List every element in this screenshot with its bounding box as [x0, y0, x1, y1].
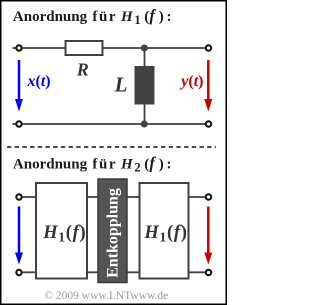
border frame [1, 1, 227, 305]
terminal top-right [206, 45, 211, 50]
terminal lower-right-bottom [206, 270, 211, 275]
terminal lower-right-top [206, 194, 211, 199]
terminal lower-left-top [16, 194, 21, 199]
terminal bottom-right [206, 121, 211, 126]
stub left of top-left terminal [13, 47, 16, 49]
wire top (input to output) [23, 47, 205, 49]
wire inductor branch vertical [144, 48, 146, 124]
block U2 Entkopplung (decoupler) [98, 179, 127, 283]
terminal lower-left-bottom [16, 270, 21, 275]
terminal top-left [16, 45, 21, 50]
wire bottom [23, 123, 205, 125]
dashed separator [7, 146, 216, 148]
wire block U3 to output terminal top [189, 196, 205, 198]
node junction bottom [141, 121, 148, 128]
wire block U2 to U3 bottom [127, 271, 140, 273]
output arrow bottom circuit [207, 207, 210, 254]
stub left of bottom-left terminal [13, 123, 16, 125]
input voltage arrow x(t) [18, 60, 21, 101]
terminal bottom-left [16, 121, 21, 126]
svg-text:L: L [114, 73, 128, 97]
svg-text:AnordnungfürH1(f):: AnordnungfürH1(f): [13, 6, 172, 27]
node junction top [141, 45, 148, 52]
wire block U2 to U3 top [127, 196, 140, 198]
resistor R1 body [66, 41, 103, 55]
wire block U3 to output terminal bottom [189, 271, 205, 273]
block U1 first H1(f) [36, 183, 87, 279]
wire input terminal to block U1 bottom [23, 271, 36, 273]
svg-text:Entkopplung: Entkopplung [105, 188, 122, 278]
output voltage arrow y(t) [207, 60, 210, 101]
wire input terminal to block U1 top [23, 196, 36, 198]
svg-text:R: R [76, 60, 89, 80]
svg-text:x(t): x(t) [27, 73, 51, 90]
input arrow bottom circuit [18, 207, 21, 254]
inductor L1 body [135, 66, 155, 105]
wire block U1 to U2 top [87, 196, 98, 198]
svg-text:y(t): y(t) [179, 73, 203, 90]
wire block U1 to U2 bottom [87, 271, 98, 273]
block U3 second H1(f) [140, 183, 189, 279]
svg-text:© 2009 www.LNTwww.de: © 2009 www.LNTwww.de [44, 290, 168, 302]
svg-text:AnordnungfürH2(f):: AnordnungfürH2(f): [13, 154, 172, 175]
